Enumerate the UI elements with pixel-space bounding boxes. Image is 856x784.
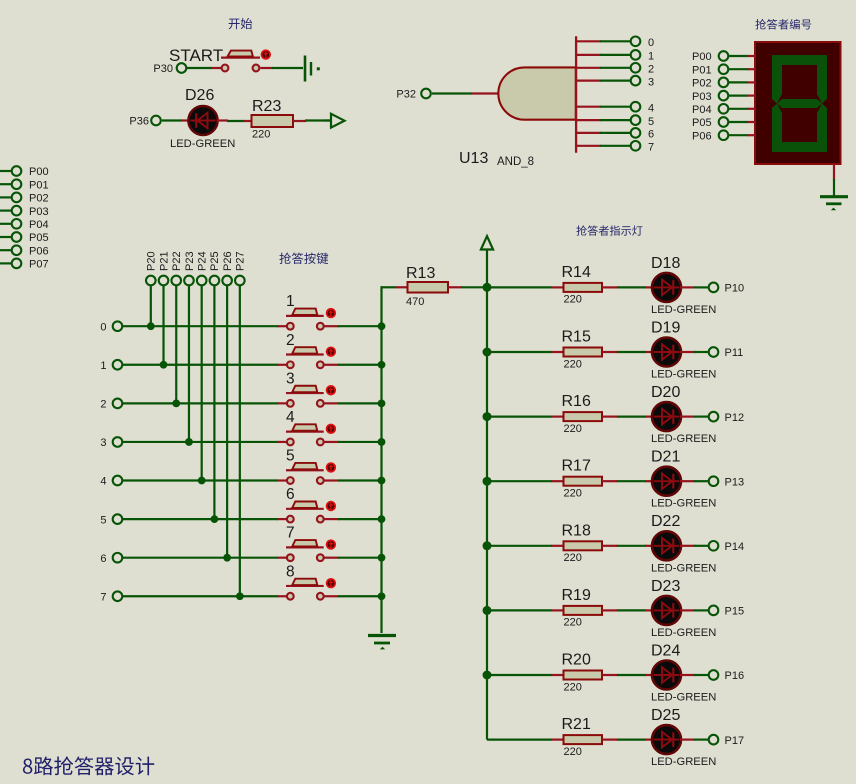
junction (483, 283, 492, 292)
pin (577, 132, 601, 134)
pin (602, 738, 618, 740)
wire (338, 402, 382, 404)
svg-text:P23: P23 (184, 251, 196, 271)
svg-text:P00: P00 (692, 51, 712, 63)
svg-text:R14: R14 (562, 264, 591, 281)
pin (277, 402, 287, 404)
terminal node 2 (631, 63, 654, 76)
wire (0, 210, 12, 212)
svg-text:2: 2 (286, 332, 295, 349)
pin (602, 545, 618, 547)
svg-text:D26: D26 (185, 87, 214, 104)
junction (378, 592, 386, 600)
svg-text:P00: P00 (29, 166, 49, 178)
terminal P03 (12, 206, 49, 218)
svg-text:2: 2 (648, 64, 654, 76)
svg-text:R21: R21 (562, 716, 591, 733)
terminal P13 (709, 476, 744, 488)
pin (645, 286, 653, 288)
wire (0, 170, 12, 172)
wire (694, 674, 709, 676)
pin (261, 67, 274, 69)
pin (551, 416, 564, 418)
junction node 6 (223, 554, 231, 562)
wire bus (486, 287, 488, 739)
svg-text:P32: P32 (396, 89, 416, 101)
wire (600, 132, 631, 134)
LED D26 (189, 106, 218, 135)
pin (747, 121, 756, 123)
svg-text:D21: D21 (651, 449, 680, 466)
svg-text:D25: D25 (651, 707, 680, 724)
7seg segment E (772, 104, 782, 153)
svg-text:LED-GREEN: LED-GREEN (651, 692, 716, 704)
wire (729, 134, 748, 136)
pin (680, 674, 695, 676)
wire (0, 249, 12, 251)
wire (694, 351, 709, 353)
junction (378, 515, 386, 523)
svg-text:D19: D19 (651, 319, 680, 336)
label 抢答者编号 (755, 19, 811, 30)
svg-text:6: 6 (286, 486, 295, 503)
terminal P00 (12, 166, 49, 178)
pin (602, 286, 618, 288)
terminal P32 (396, 89, 430, 101)
wire (432, 92, 472, 94)
wire (239, 286, 241, 597)
pin (277, 595, 287, 597)
junction (378, 322, 386, 330)
wire (123, 557, 278, 559)
svg-text:3: 3 (100, 437, 106, 449)
wire (0, 236, 12, 238)
wire (729, 94, 748, 96)
terminal node 0 (631, 37, 654, 50)
pin (602, 416, 618, 418)
svg-text:2: 2 (100, 399, 106, 411)
label 开始 (229, 18, 253, 29)
terminal node 7 (100, 591, 122, 603)
terminal node 6 (631, 128, 654, 141)
svg-text:P05: P05 (692, 117, 712, 129)
pin (577, 54, 601, 56)
terminal P02 (12, 193, 49, 205)
svg-text:D18: D18 (651, 255, 680, 272)
svg-text:R20: R20 (562, 652, 591, 669)
terminal P06 (12, 245, 49, 257)
wire (338, 595, 382, 597)
wire (123, 364, 278, 366)
wire (729, 55, 748, 57)
wire (338, 325, 382, 327)
pin (602, 351, 618, 353)
junction (483, 671, 492, 680)
pin (551, 674, 564, 676)
button SW5 (286, 448, 336, 484)
wire (338, 479, 382, 481)
terminal P03 (692, 91, 728, 103)
svg-text:P36: P36 (129, 116, 149, 128)
pin (747, 81, 756, 83)
LED D25 (651, 707, 681, 754)
7seg segment F (772, 55, 782, 104)
terminal P10 (709, 283, 744, 295)
wire (487, 674, 552, 676)
terminal P11 (709, 347, 744, 359)
wire (617, 674, 646, 676)
svg-text:6: 6 (648, 129, 654, 141)
terminal P27 (235, 276, 245, 286)
pin (277, 557, 287, 559)
wire (338, 557, 382, 559)
label title 8路抢答器设计 (23, 756, 154, 775)
svg-text:6: 6 (100, 553, 106, 565)
wire (487, 738, 552, 740)
svg-text:P06: P06 (29, 245, 49, 257)
pin (577, 79, 601, 81)
wire (338, 364, 382, 366)
pin (645, 738, 653, 740)
pin (680, 351, 695, 353)
wire (123, 595, 278, 597)
svg-text:P30: P30 (153, 63, 173, 75)
power terminal (325, 114, 345, 128)
pin (325, 325, 340, 327)
svg-text:0: 0 (100, 321, 106, 333)
wire (694, 480, 709, 482)
pin (325, 595, 340, 597)
LED D21 (651, 449, 681, 496)
pin (325, 479, 340, 481)
resistor R23 (252, 98, 294, 141)
power terminal (481, 236, 493, 288)
pin (577, 67, 601, 69)
junction (378, 477, 386, 485)
pin (325, 441, 340, 443)
terminal P16 (709, 670, 744, 682)
wire (833, 179, 835, 196)
wire (123, 441, 278, 443)
svg-text:3: 3 (648, 76, 654, 88)
svg-text:P02: P02 (692, 78, 712, 90)
pin (211, 67, 224, 69)
7seg segment G (777, 99, 822, 108)
svg-text:220: 220 (564, 488, 582, 500)
svg-text:R17: R17 (562, 458, 591, 475)
LED D20 (651, 384, 681, 431)
junction (483, 477, 492, 486)
pin (747, 134, 756, 136)
svg-text:1: 1 (100, 360, 106, 372)
battery B1 (305, 56, 320, 82)
wire (487, 545, 552, 547)
7seg segment C (817, 104, 827, 153)
wire (272, 67, 303, 69)
svg-text:P14: P14 (725, 541, 745, 553)
svg-text:P24: P24 (196, 251, 208, 271)
wire (487, 416, 552, 418)
pin (217, 119, 228, 121)
wire (617, 351, 646, 353)
wire (487, 286, 552, 288)
junction node 5 (211, 515, 219, 523)
svg-text:P26: P26 (222, 251, 234, 271)
pin (181, 119, 189, 121)
junction (483, 348, 492, 357)
pin (833, 164, 835, 180)
svg-text:LED-GREEN: LED-GREEN (651, 498, 716, 510)
svg-text:P22: P22 (171, 251, 183, 271)
pin (551, 351, 564, 353)
svg-text:LED-GREEN: LED-GREEN (651, 562, 716, 574)
terminal P05 (12, 232, 49, 244)
button SW3 (286, 370, 336, 406)
button SW1 (286, 293, 336, 329)
svg-text:P10: P10 (725, 283, 745, 295)
resistor R18 (562, 522, 603, 564)
svg-text:220: 220 (564, 617, 582, 629)
wire (487, 351, 552, 353)
pin (747, 55, 756, 57)
svg-text:0: 0 (648, 37, 654, 49)
pin (395, 286, 408, 288)
svg-text:220: 220 (564, 294, 582, 306)
op-amp U13 AND_8 gate body (498, 36, 576, 153)
svg-text:7: 7 (648, 142, 654, 154)
wire (617, 738, 646, 740)
svg-text:P11: P11 (725, 347, 744, 359)
button SW4 (286, 409, 336, 445)
LED D23 (651, 578, 681, 625)
pin (277, 441, 287, 443)
terminal P00 (692, 51, 728, 63)
pin (645, 480, 653, 482)
svg-text:220: 220 (564, 358, 582, 370)
wire (600, 54, 631, 56)
terminal P04 (12, 219, 49, 231)
junction node 1 (160, 361, 168, 369)
terminal P15 (709, 606, 744, 618)
svg-text:220: 220 (564, 552, 582, 564)
ground (368, 636, 396, 650)
terminal P14 (709, 541, 744, 553)
svg-text:P25: P25 (209, 251, 221, 271)
svg-text:P16: P16 (725, 670, 745, 682)
svg-text:P17: P17 (725, 735, 745, 747)
junction (378, 361, 386, 369)
terminal P30 (153, 63, 186, 75)
resistor R19 (562, 587, 603, 629)
svg-text:5: 5 (100, 514, 106, 526)
svg-text:P05: P05 (29, 232, 49, 244)
junction node 7 (236, 592, 244, 600)
wire (617, 609, 646, 611)
wire (162, 286, 164, 365)
pin (293, 120, 306, 122)
svg-text:4: 4 (100, 476, 106, 488)
resistor R21 (562, 716, 603, 758)
junction (378, 438, 386, 446)
junction (483, 606, 492, 615)
pin (577, 106, 601, 108)
button SW8 (286, 563, 336, 599)
pin (747, 108, 756, 110)
pin (645, 351, 653, 353)
terminal P01 (12, 179, 49, 191)
wire (123, 518, 278, 520)
svg-text:LED-GREEN: LED-GREEN (651, 304, 716, 316)
wire (150, 286, 152, 327)
pin (325, 518, 340, 520)
pin (551, 545, 564, 547)
svg-text:D22: D22 (651, 513, 680, 530)
svg-text:P21: P21 (158, 251, 170, 271)
pin (277, 364, 287, 366)
terminal node 6 (100, 553, 122, 565)
svg-text:P07: P07 (29, 259, 49, 271)
pin (602, 609, 618, 611)
terminal P05 (692, 117, 728, 129)
wire (123, 402, 278, 404)
pin (577, 40, 601, 42)
svg-text:LED-GREEN: LED-GREEN (651, 369, 716, 381)
wire (0, 262, 12, 264)
svg-text:P03: P03 (29, 206, 49, 218)
svg-text:220: 220 (252, 129, 270, 141)
terminal P36 (129, 116, 160, 128)
svg-text:D24: D24 (651, 642, 680, 659)
svg-text:P03: P03 (692, 91, 712, 103)
terminal P21 (159, 276, 169, 286)
pin (448, 286, 462, 288)
terminal P24 (197, 276, 207, 286)
svg-text:D23: D23 (651, 578, 680, 595)
pin (645, 545, 653, 547)
svg-text:LED-GREEN: LED-GREEN (651, 756, 716, 768)
pin (277, 325, 287, 327)
pin (645, 609, 653, 611)
wire (600, 40, 631, 42)
wire (694, 416, 709, 418)
pin (551, 286, 564, 288)
junction (378, 554, 386, 562)
pin (551, 738, 564, 740)
terminal node 1 (100, 360, 122, 372)
wire (338, 441, 382, 443)
svg-text:220: 220 (564, 423, 582, 435)
pin (680, 416, 695, 418)
resistor R15 (562, 329, 603, 371)
pin (325, 557, 340, 559)
wire (617, 416, 646, 418)
terminal P01 (692, 64, 728, 76)
pin (325, 402, 340, 404)
svg-text:P04: P04 (692, 104, 712, 116)
svg-text:D20: D20 (651, 384, 680, 401)
svg-text:7: 7 (286, 525, 295, 542)
button SW6 (286, 486, 336, 522)
terminal node 4 (631, 102, 654, 115)
wire (123, 479, 278, 481)
wire (0, 183, 12, 185)
svg-text:P01: P01 (29, 179, 49, 191)
terminal P06 (692, 130, 728, 142)
resistor R16 (562, 393, 603, 435)
wire (487, 480, 552, 482)
terminal node 5 (100, 514, 122, 526)
terminal node 1 (631, 50, 654, 63)
wire (123, 325, 278, 327)
svg-text:R13: R13 (406, 265, 435, 282)
terminal P12 (709, 412, 744, 424)
button SW7 (286, 525, 336, 561)
LED D19 (651, 319, 681, 366)
junction node 0 (147, 322, 155, 330)
pin (645, 416, 653, 418)
button SW2 (286, 332, 336, 368)
pin (602, 674, 618, 676)
terminal P17 (709, 735, 744, 747)
terminal node 5 (631, 115, 654, 128)
svg-text:LED-GREEN: LED-GREEN (170, 138, 235, 150)
wire (338, 518, 382, 520)
pin (471, 92, 498, 94)
terminal node 4 (100, 476, 122, 488)
terminal node 2 (100, 399, 122, 411)
junction node 3 (185, 438, 193, 446)
pin (577, 145, 601, 147)
svg-text:P15: P15 (725, 606, 745, 618)
svg-text:P20: P20 (146, 251, 158, 271)
wire (461, 286, 487, 288)
wire (729, 68, 748, 70)
wire (729, 108, 748, 110)
svg-text:U13: U13 (459, 150, 488, 167)
pin (551, 480, 564, 482)
svg-text:1: 1 (648, 51, 654, 63)
svg-text:1: 1 (286, 293, 295, 310)
wire (729, 121, 748, 123)
svg-text:P13: P13 (725, 476, 745, 488)
resistor R20 (562, 652, 603, 694)
wire (694, 738, 709, 740)
pin (645, 674, 653, 676)
wire (187, 67, 212, 69)
terminal node 3 (631, 76, 654, 89)
svg-text:220: 220 (564, 746, 582, 758)
terminal P07 (12, 259, 49, 271)
svg-text:P06: P06 (692, 130, 712, 142)
terminal P02 (692, 78, 728, 90)
pin (577, 119, 601, 121)
ground (820, 197, 848, 211)
svg-text:R15: R15 (562, 329, 591, 346)
svg-text:LED-GREEN: LED-GREEN (651, 627, 716, 639)
wire (227, 120, 244, 122)
svg-text:4: 4 (286, 409, 295, 426)
junction (483, 541, 492, 550)
svg-text:5: 5 (286, 448, 295, 465)
resistor R14 (562, 264, 603, 306)
terminal P22 (171, 276, 181, 286)
label 抢答按键 (279, 252, 328, 264)
terminal node 0 (100, 321, 122, 333)
svg-text:220: 220 (564, 681, 582, 693)
pin (680, 286, 695, 288)
wire (487, 609, 552, 611)
7seg segment B (817, 55, 827, 104)
